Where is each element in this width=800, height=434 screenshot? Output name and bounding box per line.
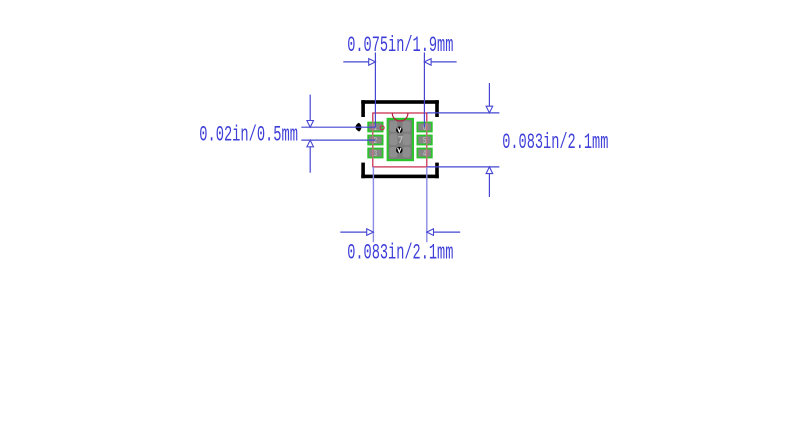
silkscreen bottom-right stub — [435, 163, 439, 179]
silkscreen bottom-left stub — [361, 163, 365, 179]
pad 3 — [368, 149, 382, 160]
svg-text:2: 2 — [374, 137, 377, 147]
svg-text:0.083in/2.1mm: 0.083in/2.1mm — [502, 131, 608, 155]
pad 1 — [368, 123, 382, 134]
pin 1 pointer wedge — [356, 123, 362, 132]
dim: top width 1.9mm extension line left — [374, 53, 376, 128]
dim: bottom width 2.1mm extension line left — [372, 167, 374, 242]
svg-text:0.083in/2.1mm: 0.083in/2.1mm — [347, 242, 453, 266]
package body / thermal pad U1 — [388, 119, 413, 160]
silkscreen top-right stub — [435, 100, 439, 117]
thermal pad number 7 — [398, 137, 402, 143]
courtyard right edge over pads (pink) — [426, 122, 428, 159]
dim: top width arrow right — [424, 59, 456, 66]
dim: bottom width arrow left — [340, 229, 373, 236]
svg-text:0.02in/0.5mm: 0.02in/0.5mm — [199, 123, 298, 148]
svg-text:3: 3 — [374, 150, 378, 160]
pin-1 notch arc on courtyard — [392, 113, 408, 121]
pin 1 indicator circle — [380, 126, 384, 130]
dim: bottom width arrow right — [427, 229, 460, 236]
svg-text:0.075in/1.9mm: 0.075in/1.9mm — [347, 34, 453, 58]
via V2 — [396, 147, 403, 154]
courtyard outline (red box 2.1mm) — [373, 113, 427, 167]
pad 6 — [417, 123, 431, 134]
dim: right height 2.1mm extension line upper — [427, 112, 500, 114]
silkscreen top-left stub — [361, 100, 365, 117]
dim: bottom width 2.1mm extension line right — [426, 167, 428, 242]
dim: left pitch 0.5mm extension line lower — [301, 139, 375, 141]
dim: right height arrow upper — [486, 83, 493, 113]
pad 4 — [417, 149, 431, 160]
dim: left pitch arrow lower — [307, 140, 314, 173]
dim: top width 1.9mm extension line right — [423, 53, 425, 128]
silkscreen bottom bar — [361, 175, 439, 179]
dim: left pitch arrow upper — [307, 95, 314, 128]
pad 2 — [368, 136, 382, 147]
svg-text:5: 5 — [423, 137, 427, 147]
silkscreen top bar — [361, 100, 439, 104]
courtyard left edge over pads (pink) — [372, 122, 374, 159]
dim: right height 2.1mm extension line lower — [428, 166, 500, 168]
svg-text:4: 4 — [423, 150, 427, 160]
via V1 — [396, 127, 403, 134]
dim: left pitch 0.5mm extension line upper — [301, 126, 375, 128]
dim: right height arrow lower — [486, 167, 493, 197]
dim: top width arrow left — [343, 59, 375, 66]
pad 5 — [417, 136, 431, 147]
